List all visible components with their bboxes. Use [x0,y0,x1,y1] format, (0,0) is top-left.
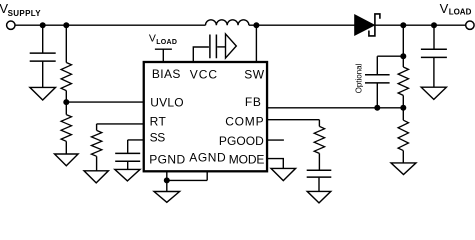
ground VCC (sideways) [226,34,237,58]
resistor R2 (UVLO bottom) [61,115,71,142]
wire rail to R1 [65,25,67,62]
node PGND [164,177,170,183]
capacitor C_VCC [210,35,217,59]
svg-text:FB: FB [245,95,262,109]
wire COMP to RC [267,120,320,127]
node C_OUT tap [431,22,437,28]
ground COMP [307,191,331,203]
svg-text:UVLO: UVLO [150,95,183,109]
svg-text:BIAS: BIAS [152,67,181,81]
svg-text:LOAD: LOAD [156,39,177,46]
node C_IN tap [40,22,46,28]
capacitor C_SS [115,153,140,161]
wire PGND to ground [166,180,168,191]
resistor R_FB_top [398,67,408,95]
svg-text:V: V [149,33,156,45]
ground SS [115,169,140,181]
wire R2 to ground [65,141,67,154]
svg-text:PGND: PGND [149,152,185,166]
wire C_COMP to ground [318,178,320,192]
wire UVLO to IC [66,101,143,103]
wire FB divider top drop [402,25,404,67]
node FB left [374,105,380,111]
wire PGND stub [166,171,168,180]
wire R_FB_top to FB node [402,95,404,120]
ground FB [391,163,416,175]
wire C_IN to ground [42,62,44,88]
svg-text:SUPPLY: SUPPLY [8,9,42,18]
inductor L1 [206,20,249,25]
svg-text:LOAD: LOAD [449,7,472,16]
svg-text:SW: SW [244,67,265,81]
svg-text:SS: SS [150,130,166,144]
terminal VLOAD output [466,21,474,29]
wire C_optional to FB node [376,83,378,107]
resistor R_COMP [314,126,324,153]
op IC U1 box [144,62,267,171]
resistor R_RT [91,130,101,156]
capacitor C_OUT [421,49,447,57]
wire R_COMP to C_COMP [318,153,320,169]
capacitor C_IN branch wire [42,25,44,52]
wire RT resistor to ground [96,156,98,171]
wire C_OUT to ground [433,58,435,87]
node UVLO tap [63,22,69,28]
wire FB to IC [267,107,403,109]
wire VCC decoupling [193,47,209,62]
wire R1 to R2 [65,91,67,115]
ground RT [84,171,108,183]
ground C_OUT [421,87,446,99]
wire PGOOD stub [267,139,284,141]
wire R_FB_bottom to ground [402,151,404,163]
wire output cap drop [433,25,435,49]
svg-text:AGND: AGND [189,150,226,164]
wire SW stub [255,25,257,62]
capacitor C_optional [365,75,390,83]
wire MODE to ground [267,159,283,169]
resistor R_FB_bottom [398,120,408,150]
node SW junction [253,22,259,28]
ground PGND [154,192,180,203]
node FB right [400,105,406,111]
capacitor C_IN [30,53,56,61]
diode D1 (schottky) [355,15,375,35]
capacitor C_COMP [307,170,332,177]
wire AGND stub [167,171,207,180]
node diode cathode junction [400,22,406,28]
svg-text:MODE: MODE [229,152,265,166]
ground UVLO [55,154,79,166]
svg-text:COMP: COMP [225,114,264,128]
wire C_VCC to ground [217,46,225,48]
terminal VSUPPLY [7,21,15,29]
ground C_IN [30,87,56,100]
wire to optional cap [377,56,403,74]
svg-text:VCC: VCC [190,67,218,81]
resistor R1 (UVLO top) [61,63,71,91]
node UVLO divider [63,99,69,105]
svg-text:V: V [440,1,449,16]
supply tap VLOAD at BIAS [155,49,172,62]
svg-text:PGOOD: PGOOD [219,134,264,148]
wire C_SS to ground [127,162,129,170]
node optional junction [400,53,406,59]
ground MODE [271,168,296,180]
svg-text:Optional: Optional [355,63,364,93]
svg-text:RT: RT [150,115,167,129]
wire top rail [15,24,466,26]
wire SS to IC [128,140,144,153]
wire RT to IC [97,124,144,130]
